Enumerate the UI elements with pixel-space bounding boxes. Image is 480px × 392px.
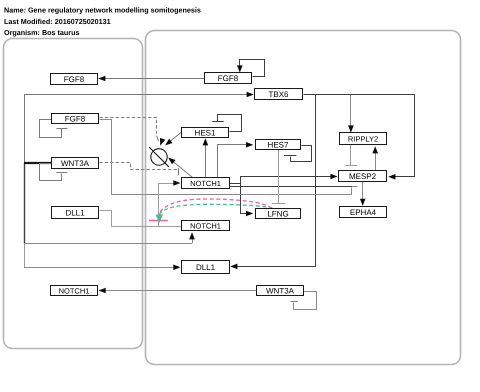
svg-text:NOTCH1: NOTCH1	[190, 179, 221, 188]
svg-text:Last Modified: 20160725020131: Last Modified: 20160725020131	[4, 17, 111, 26]
svg-text:FGF8: FGF8	[64, 75, 85, 84]
svg-text:LFNG: LFNG	[267, 209, 288, 218]
svg-text:Name: Gene regulatory network: Name: Gene regulatory network modelling …	[4, 6, 201, 15]
svg-text:DLL1: DLL1	[196, 263, 216, 272]
svg-text:WNT3A: WNT3A	[61, 159, 90, 168]
svg-text:WNT3A: WNT3A	[266, 286, 295, 295]
svg-text:NOTCH1: NOTCH1	[59, 286, 90, 295]
svg-text:Organism: Bos taurus: Organism: Bos taurus	[4, 28, 79, 37]
svg-text:MESP2: MESP2	[349, 172, 377, 181]
svg-text:HES1: HES1	[195, 128, 216, 137]
svg-text:NOTCH1: NOTCH1	[190, 221, 221, 230]
svg-text:DLL1: DLL1	[65, 208, 85, 217]
svg-text:TBX6: TBX6	[268, 90, 289, 99]
svg-text:EPHA4: EPHA4	[350, 208, 377, 217]
svg-text:HES7: HES7	[268, 140, 289, 149]
svg-text:FGF8: FGF8	[65, 114, 86, 123]
svg-text:FGF8: FGF8	[218, 74, 239, 83]
svg-text:RIPPLY2: RIPPLY2	[348, 134, 378, 143]
